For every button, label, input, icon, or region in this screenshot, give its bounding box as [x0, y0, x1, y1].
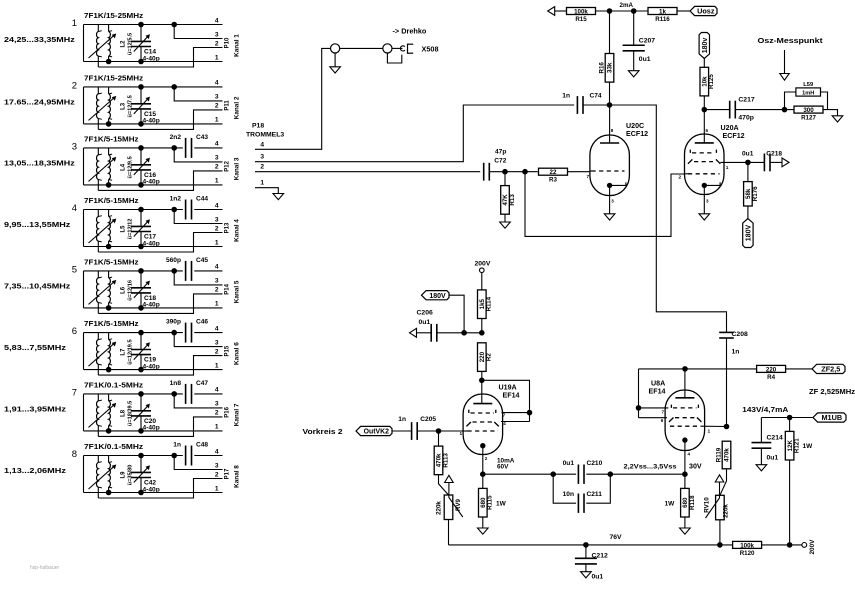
svg-text:4-40p: 4-40p [143, 486, 160, 493]
svg-text:1: 1 [215, 178, 219, 185]
wire [439, 430, 463, 432]
svg-text:1: 1 [708, 429, 711, 435]
wire [83, 394, 85, 431]
svg-text:3: 3 [215, 278, 219, 285]
svg-text:L4: L4 [121, 163, 127, 171]
svg-text:P10: P10 [225, 37, 231, 48]
capacitor C211 10n [553, 474, 576, 503]
svg-text:10n: 10n [563, 491, 574, 498]
svg-text:2: 2 [72, 80, 77, 91]
svg-text:C45: C45 [196, 257, 208, 264]
svg-text:2: 2 [215, 103, 219, 110]
junction [462, 331, 467, 336]
junction [584, 543, 589, 548]
junction [436, 429, 441, 434]
svg-text:4-40p: 4-40p [143, 302, 160, 309]
svg-text:R118: R118 [689, 495, 696, 510]
svg-text:220: 220 [766, 366, 777, 373]
capacitor C214 0u1 [760, 418, 762, 443]
svg-text:4: 4 [215, 80, 219, 87]
wire [449, 295, 464, 333]
svg-text:C46: C46 [196, 319, 208, 326]
svg-text:7F1K/15-25MHz: 7F1K/15-25MHz [84, 73, 143, 82]
svg-text:R120: R120 [740, 550, 755, 557]
wire [84, 455, 183, 457]
svg-text:2: 2 [215, 471, 219, 478]
svg-text:1n: 1n [562, 93, 570, 100]
svg-text:1k: 1k [659, 8, 666, 15]
svg-text:4: 4 [215, 325, 219, 332]
wire [174, 394, 222, 408]
wire [639, 407, 669, 409]
trimmer capacitor C15 4-40p [131, 87, 151, 124]
svg-text:3: 3 [215, 94, 219, 101]
wire [83, 210, 85, 247]
svg-text:2: 2 [215, 410, 219, 417]
wire [83, 333, 85, 370]
ground [500, 222, 511, 228]
capacitor C45 [185, 261, 187, 281]
svg-text:143V/4,7mA: 143V/4,7mA [742, 405, 789, 414]
wire [583, 104, 610, 106]
wire [84, 24, 223, 26]
junction [139, 330, 144, 335]
junction [172, 85, 177, 90]
junction [139, 269, 144, 274]
capacitor C205 1n [392, 430, 412, 432]
wire [84, 123, 223, 125]
svg-text:M1UB: M1UB [821, 413, 842, 422]
junction [106, 490, 111, 495]
svg-text:7F1K/5-15MHz: 7F1K/5-15MHz [84, 134, 139, 143]
svg-text:1mH: 1mH [802, 91, 814, 97]
wire [98, 110, 222, 129]
svg-text:C48: C48 [196, 442, 208, 449]
svg-text:2: 2 [679, 175, 682, 181]
wire [568, 171, 591, 173]
resistor R16 33k [605, 54, 614, 83]
ground [581, 572, 592, 578]
resistor R115 680 1W [482, 474, 484, 488]
wire [525, 172, 685, 237]
wire [84, 270, 183, 272]
svg-text:C43: C43 [196, 134, 208, 141]
svg-text:1,91...3,95MHz: 1,91...3,95MHz [4, 404, 66, 413]
connector pad circle [383, 44, 392, 53]
svg-text:L59: L59 [803, 82, 814, 88]
junction [139, 22, 144, 27]
wire [98, 479, 222, 499]
capacitor C207 0u1 [633, 11, 635, 45]
svg-text:U20A: U20A [721, 124, 739, 132]
junction [106, 429, 111, 434]
junction [172, 207, 177, 212]
wire [439, 475, 449, 496]
wire [586, 473, 685, 475]
ground [478, 528, 489, 534]
junction [481, 472, 486, 477]
inductor L4 [89, 148, 117, 191]
svg-text:1W: 1W [496, 501, 507, 508]
svg-text:4-40p: 4-40p [143, 179, 160, 186]
svg-text:C217: C217 [738, 97, 754, 104]
wire [609, 11, 611, 54]
junction [636, 406, 641, 411]
wire [501, 421, 530, 423]
svg-text:P18: P18 [252, 123, 264, 130]
wire [334, 53, 336, 67]
terminal circle [802, 543, 807, 548]
svg-text:60V: 60V [497, 464, 509, 471]
wire [98, 294, 222, 314]
junction [172, 330, 177, 335]
resistor R120 100k [733, 541, 762, 548]
svg-text:3: 3 [215, 339, 219, 346]
wire [483, 473, 576, 475]
svg-text:OutVK2: OutVK2 [364, 429, 389, 436]
wire [83, 456, 85, 493]
svg-text:ZF2,5: ZF2,5 [821, 365, 840, 374]
junction [139, 122, 144, 127]
svg-text:L2: L2 [121, 40, 127, 48]
svg-text:24,25...33,35MHz: 24,25...33,35MHz [4, 35, 75, 44]
wire [449, 544, 733, 546]
inductor L8 [89, 394, 117, 437]
wire [609, 82, 611, 105]
svg-text:P11: P11 [225, 100, 231, 111]
svg-text:R176: R176 [752, 186, 759, 201]
svg-text:Kanal 2: Kanal 2 [234, 96, 241, 119]
voltage flag 180V [422, 291, 450, 300]
capacitor C48 [185, 446, 187, 466]
resistor R13 47K [504, 172, 506, 187]
wire [174, 25, 222, 39]
ground [628, 71, 639, 77]
wire [84, 492, 223, 494]
svg-text:7F1K/5-15MHz: 7F1K/5-15MHz [84, 196, 139, 205]
svg-text:P12: P12 [225, 160, 231, 171]
ground [680, 528, 691, 534]
wire [719, 520, 721, 545]
resistor R118 680 1W [684, 474, 686, 488]
junction [527, 410, 532, 415]
svg-text:Kanal 3: Kanal 3 [234, 157, 241, 180]
svg-text:ü=12/7.5: ü=12/7.5 [128, 95, 134, 117]
wire [84, 86, 223, 88]
junction [139, 85, 144, 90]
svg-text:7,35...10,45MHz: 7,35...10,45MHz [4, 281, 71, 290]
svg-text:1: 1 [460, 431, 463, 437]
junction [172, 392, 177, 397]
svg-text:200V: 200V [809, 539, 816, 555]
svg-text:1n8: 1n8 [170, 380, 182, 387]
svg-text:4: 4 [215, 17, 219, 24]
resistor R3 22 [539, 168, 568, 175]
svg-text:ECF12: ECF12 [723, 132, 745, 140]
net flag M1UB [813, 413, 846, 422]
junction [172, 22, 177, 27]
svg-text:4-40p: 4-40p [143, 240, 160, 247]
svg-text:ü=12/9.5: ü=12/9.5 [128, 156, 134, 178]
capacitor C46 [185, 323, 187, 343]
svg-text:9,95...13,55MHz: 9,95...13,55MHz [4, 220, 71, 229]
svg-text:R16: R16 [598, 62, 605, 74]
wire [489, 171, 538, 173]
svg-text:Vorkreis 2: Vorkreis 2 [303, 427, 343, 436]
svg-text:6: 6 [72, 326, 77, 337]
svg-text:C205: C205 [420, 416, 436, 423]
wire [464, 332, 482, 334]
wire [720, 469, 727, 496]
svg-text:7F1K/0.1-5MHz: 7F1K/0.1-5MHz [84, 442, 144, 451]
svg-text:22: 22 [550, 169, 557, 176]
svg-text:U8A: U8A [651, 380, 665, 388]
svg-text:4-40p: 4-40p [143, 55, 160, 62]
svg-text:100k: 100k [740, 542, 754, 549]
svg-text:U20C: U20C [626, 122, 644, 130]
resistor R127 300 [794, 106, 823, 113]
wire [98, 48, 222, 68]
wire [596, 10, 649, 12]
junction [139, 244, 144, 249]
tube U8A EF14 pentode [661, 369, 727, 474]
svg-text:L7: L7 [121, 348, 127, 356]
wire [639, 368, 757, 370]
junction [480, 378, 485, 383]
junction [139, 453, 144, 458]
svg-text:R113: R113 [442, 453, 449, 468]
svg-text:180v: 180v [702, 38, 709, 54]
junction [139, 183, 144, 188]
wire [83, 87, 85, 124]
junction [106, 59, 111, 64]
svg-text:7F1K/0.1-5MHz: 7F1K/0.1-5MHz [84, 380, 144, 389]
svg-text:R4: R4 [767, 374, 775, 381]
svg-text:P16: P16 [225, 406, 231, 417]
off-page arrow [410, 328, 417, 337]
net flag Uosz [690, 6, 717, 15]
ground [756, 465, 767, 471]
svg-text:C72: C72 [494, 158, 506, 165]
resistor R2 220 [478, 343, 487, 372]
svg-text:30V: 30V [689, 463, 702, 471]
wire [502, 412, 530, 414]
junction [106, 367, 111, 372]
svg-text:C210: C210 [587, 460, 603, 467]
wire [392, 47, 403, 49]
off-page arrow [782, 158, 789, 167]
svg-text:-> Drehko: -> Drehko [393, 27, 427, 36]
svg-text:3: 3 [215, 155, 219, 162]
svg-text:R2: R2 [486, 353, 493, 361]
svg-text:Kanal 1: Kanal 1 [234, 34, 241, 57]
wire [174, 333, 222, 347]
svg-text:7F1K/5-15MHz: 7F1K/5-15MHz [84, 257, 139, 266]
svg-text:4: 4 [260, 141, 264, 148]
junction [782, 107, 787, 112]
junction [172, 453, 177, 458]
wire [387, 53, 401, 63]
wire [84, 209, 183, 211]
terminal circle [480, 268, 485, 273]
wire [638, 369, 640, 418]
svg-text:0u1: 0u1 [767, 454, 779, 461]
svg-text:ü=12/19.5: ü=12/19.5 [128, 339, 134, 364]
svg-text:1: 1 [215, 54, 219, 61]
junction [702, 107, 707, 112]
resistor R4 220 [757, 365, 786, 372]
capacitor C74 1n [576, 96, 578, 114]
svg-text:2,2Vss...3,5Vss: 2,2Vss...3,5Vss [624, 464, 677, 471]
wire [174, 87, 222, 101]
inductor L3 [89, 87, 117, 129]
svg-text:R114: R114 [486, 296, 493, 311]
resistor R15 100k [567, 8, 596, 15]
capacitor C208 1n [719, 331, 734, 333]
svg-text:U19A: U19A [499, 384, 517, 392]
capacitor C72 47p [483, 163, 485, 181]
wire [761, 417, 813, 419]
svg-text:2: 2 [215, 287, 219, 294]
svg-text:2: 2 [260, 164, 264, 171]
wire [482, 380, 530, 421]
junction [551, 472, 556, 477]
junction [139, 367, 144, 372]
junction [631, 9, 636, 14]
tube U20C ECF12 triode [587, 105, 630, 214]
inductor L59 1mH [785, 92, 796, 110]
svg-text:P17: P17 [225, 468, 231, 479]
svg-text:4: 4 [215, 448, 219, 455]
svg-text:ü=12/16: ü=12/16 [128, 280, 134, 301]
svg-text:1n: 1n [732, 349, 740, 356]
svg-text:L6: L6 [121, 286, 127, 294]
svg-text:ZF 2,525MHz: ZF 2,525MHz [809, 387, 855, 396]
wire [98, 356, 222, 376]
trimmer capacitor C20 4-40p [131, 394, 151, 431]
junction [607, 103, 612, 108]
svg-text:3: 3 [215, 462, 219, 469]
svg-text:200V: 200V [475, 261, 491, 268]
svg-text:300: 300 [803, 107, 814, 114]
wire [255, 171, 480, 173]
inductor L9 [89, 456, 117, 499]
svg-text:100k: 100k [574, 8, 588, 15]
svg-text:390p: 390p [166, 319, 181, 326]
svg-text:1: 1 [215, 485, 219, 492]
svg-text:47p: 47p [495, 149, 506, 156]
junction [718, 543, 723, 548]
svg-text:0u1: 0u1 [563, 460, 575, 467]
svg-text:3: 3 [260, 154, 264, 161]
svg-text:Kanal 5: Kanal 5 [234, 280, 241, 303]
wire [174, 210, 222, 224]
junction [607, 9, 612, 14]
svg-text:L5: L5 [121, 225, 127, 233]
svg-text:TROMMEL3: TROMMEL3 [246, 132, 284, 139]
wire [255, 105, 574, 162]
junction [139, 207, 144, 212]
wire [610, 105, 727, 332]
wire [98, 417, 222, 437]
svg-text:C218: C218 [766, 150, 782, 157]
svg-text:1n2: 1n2 [170, 196, 182, 203]
wire [340, 47, 383, 49]
svg-text:4: 4 [215, 141, 219, 148]
wire [84, 307, 223, 309]
svg-text:C74: C74 [590, 93, 602, 100]
wire [83, 148, 85, 185]
svg-text:2: 2 [215, 164, 219, 171]
svg-text:7: 7 [587, 174, 590, 180]
inductor L2 [89, 25, 117, 68]
junction [683, 472, 688, 477]
svg-text:560p: 560p [166, 257, 181, 264]
trimmer capacitor C16 4-40p [131, 148, 151, 185]
wire [174, 456, 222, 470]
svg-text:hsp-halbauer: hsp-halbauer [30, 565, 60, 571]
junction [106, 244, 111, 249]
svg-text:1: 1 [260, 180, 264, 187]
svg-text:1n: 1n [173, 442, 181, 449]
svg-text:R15: R15 [575, 16, 587, 23]
trimmer capacitor C14 4-40p [131, 25, 151, 62]
junction [139, 490, 144, 495]
svg-text:1: 1 [215, 362, 219, 369]
resistor R114 1k5 [481, 273, 483, 290]
svg-text:5,83...7,55MHz: 5,83...7,55MHz [4, 343, 66, 352]
svg-text:EF14: EF14 [649, 388, 666, 396]
svg-text:4: 4 [215, 264, 219, 271]
svg-text:470p: 470p [738, 115, 754, 122]
svg-text:R115: R115 [487, 495, 494, 510]
net flag ZF2,5 [812, 364, 845, 373]
wire [762, 544, 802, 546]
svg-text:180V: 180V [429, 293, 446, 300]
svg-text:Kanal 6: Kanal 6 [234, 342, 241, 365]
svg-text:C206: C206 [417, 310, 433, 317]
svg-text:ü=35/80: ü=35/80 [128, 465, 134, 486]
svg-text:76V: 76V [610, 534, 623, 541]
svg-text:P14: P14 [225, 283, 231, 294]
wire [84, 332, 183, 334]
wire [84, 369, 223, 371]
trimmer capacitor C17 4-40p [131, 210, 151, 247]
svg-text:1: 1 [215, 424, 219, 431]
svg-text:R125: R125 [708, 74, 715, 89]
junction [503, 169, 508, 174]
potentiometer RV10 220k [704, 475, 730, 520]
inductor L5 [89, 210, 117, 253]
svg-text:2mA: 2mA [620, 2, 634, 9]
wire [639, 417, 668, 419]
resistor R121 12K 1W [789, 418, 791, 432]
wire [84, 246, 223, 248]
svg-text:3: 3 [215, 401, 219, 408]
resistor R116 1k [648, 8, 677, 15]
resistor R176 58k [747, 162, 749, 181]
svg-text:L3: L3 [121, 102, 127, 110]
svg-text:2: 2 [215, 225, 219, 232]
svg-text:0u1: 0u1 [742, 150, 754, 157]
tube U20A ECF12 heptode [679, 110, 748, 214]
svg-text:470k: 470k [724, 448, 731, 462]
capacitor C44 [185, 200, 187, 220]
svg-text:0u1: 0u1 [639, 56, 651, 63]
svg-text:R121: R121 [794, 438, 801, 453]
capacitor C212 0u1 [585, 545, 587, 558]
svg-text:X508: X508 [422, 45, 439, 54]
